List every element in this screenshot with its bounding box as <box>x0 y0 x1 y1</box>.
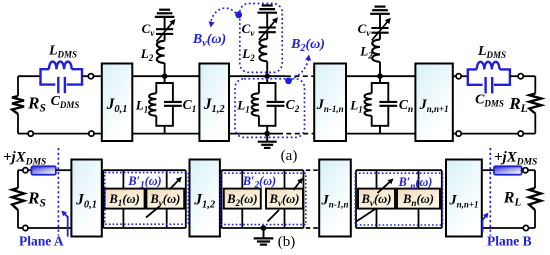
wire unit 1 element 2 <box>166 170 168 188</box>
capacitor C2 of resonator 2 <box>267 83 275 102</box>
wire resonator 2 top stub <box>266 76 268 83</box>
svg-text:(a): (a) <box>281 148 298 164</box>
wire resonator n top stub <box>379 76 381 83</box>
wire top bus J01-J12 <box>132 75 199 77</box>
svg-text:B1(ω): B1(ω) <box>108 192 139 208</box>
terminal circle (row b right) <box>523 168 528 173</box>
capacitor CDMS (right, blue) <box>484 77 486 93</box>
svg-text:Bv(ω): Bv(ω) <box>269 192 300 208</box>
susceptance box v unit 1 <box>146 189 184 209</box>
resistor RL (row b) <box>528 169 535 171</box>
node blue dot on Bv box <box>235 11 242 18</box>
arrow variable unit1 <box>170 179 180 189</box>
wire RS bottom rail <box>18 133 29 135</box>
wire top bus dashed continuation <box>286 75 314 77</box>
ground row b <box>263 228 265 238</box>
inductor L1 of resonator n <box>372 83 380 93</box>
ground (top) of branch 1 <box>155 16 175 18</box>
terminal circle load port top <box>456 74 461 79</box>
inverter box J01 (row b) <box>71 160 101 237</box>
capacitor Cn of resonator n <box>380 83 388 102</box>
capacitor CDMS (left, blue) <box>57 77 59 93</box>
svg-text:Bv(ω): Bv(ω) <box>361 192 392 208</box>
inductor L2 n <box>379 33 381 40</box>
dashed box Bv (varactor branch 2) <box>240 4 282 73</box>
susceptance box 2 unit 2 <box>224 189 261 209</box>
wire dashed bus row b top <box>306 169 319 171</box>
dashed unit box 1 <box>105 173 188 225</box>
dashed unit box n <box>355 173 442 225</box>
ground (top) of branch 2 <box>257 12 277 14</box>
inductor LDMS (right, blue) <box>468 69 510 84</box>
svg-text:B2(ω): B2(ω) <box>226 192 257 208</box>
inductor LDMS (left, blue) <box>41 69 83 84</box>
wire top bus unit 1 <box>103 169 186 171</box>
terminal circle right bottom <box>518 131 523 136</box>
resistor RS (row a) <box>17 76 19 96</box>
inductor L1 of resonator 2 <box>259 83 267 93</box>
wire unit n right port <box>441 170 443 228</box>
wire bottom left row b <box>18 227 71 229</box>
svg-text:Plane A: Plane A <box>19 234 64 249</box>
inverter box J12 (row a) <box>199 64 229 142</box>
node Plane B reference line <box>489 148 491 236</box>
svg-text:B2(ω): B2(ω) <box>290 37 325 54</box>
inductor L2 2 <box>266 32 268 39</box>
wire bottom bus Jn-1,n to Jn,n+1 <box>346 133 415 135</box>
wire to terminal <box>18 169 23 171</box>
wire unit 2 left port <box>221 170 223 228</box>
inductor L2 1 <box>164 34 166 41</box>
wire unit 2 element 2 <box>284 170 286 188</box>
node Plane A reference line <box>57 148 59 236</box>
wire resonator n bottom stub <box>379 126 381 134</box>
arrow variable Bv unit1 <box>146 206 160 218</box>
wire ground to Cv 1 <box>164 17 166 29</box>
svg-text:Bv(ω): Bv(ω) <box>149 192 180 208</box>
ground below resonator2 <box>266 134 268 142</box>
inductor L1 of resonator 1 <box>156 83 164 93</box>
node junction dot branch 2 <box>264 73 270 79</box>
capacitor C1 of resonator 1 <box>165 83 173 102</box>
wire bottom bus J12-resonator2 <box>229 133 278 135</box>
wire bottom bus J01-J12 <box>132 133 199 135</box>
wire bottom bus unit 2 <box>222 227 304 229</box>
terminal circle bottom-left <box>28 131 33 136</box>
arrow variable Bv unit n <box>356 209 377 223</box>
wire bottom bus unit n <box>356 227 442 229</box>
susceptance box n unit n <box>397 189 440 209</box>
node junction dot branch n <box>377 73 383 79</box>
wire bottom right <box>453 133 457 135</box>
terminal circle right top <box>518 74 523 79</box>
reactance XDMS box right <box>494 166 522 174</box>
wire ground to Cv n <box>379 14 381 28</box>
susceptance box 1 unit 1 <box>105 189 145 209</box>
resistor RL (row a) <box>523 75 535 77</box>
dashed box B2 (resonator 2) <box>235 79 305 138</box>
wire dashed bus row b bottom <box>306 227 319 229</box>
wire unit 2 element 1 <box>241 170 243 188</box>
capacitor Cv (varactor) 2 <box>259 26 276 28</box>
inverter box Jn-1,n (row a) <box>314 64 346 142</box>
wire top bus unit n <box>356 169 442 171</box>
inverter box Jn,n+1 (row b) <box>446 160 482 237</box>
ground (top) of branch n <box>370 13 390 15</box>
wire unit 1 left port <box>102 170 104 228</box>
arrow B2(w) callout <box>291 59 309 80</box>
wire bottom bus unit 1 <box>103 227 186 229</box>
wire RS top to LDMS block <box>18 75 41 77</box>
wire unit 2 right port <box>303 170 305 228</box>
terminal circle (row b left) <box>23 168 28 173</box>
node dot resonator2 bottom <box>264 131 270 137</box>
node blue dot on B2 box <box>285 77 292 84</box>
wire block to terminal <box>82 75 89 77</box>
terminal circle load port bottom <box>456 131 461 136</box>
wire resonator 1 bottom stub <box>164 126 166 134</box>
inverter box J01 (row a) <box>102 64 133 142</box>
node junction dot branch 1 <box>162 73 168 79</box>
svg-text:Plane B: Plane B <box>487 234 532 249</box>
wire L2 to bus 2 <box>266 61 268 76</box>
wire unit 1 right port <box>185 170 187 228</box>
resistor RS (row b) <box>17 170 19 188</box>
wire top bus unit 2 <box>222 169 304 171</box>
inverter box J12 (row b) <box>190 160 220 237</box>
inverter box Jn,n+1 (row a) <box>415 64 452 142</box>
capacitor Cv (varactor) 1 <box>156 28 173 30</box>
wire unit n left port <box>355 170 357 228</box>
reactance XDMS box left <box>31 166 55 174</box>
wire top bus J12-resonator2 <box>229 75 286 77</box>
wire resonator 2 bottom stub <box>266 126 268 134</box>
wire unit n element 2 <box>418 170 420 188</box>
arrow variable unit n <box>378 181 392 193</box>
wire bottom right row b <box>482 227 535 229</box>
wire L2 to bus n <box>379 62 381 76</box>
node dot ground row b <box>261 225 267 231</box>
terminal circle bottom right row b <box>523 225 528 230</box>
terminal circle bottom left row b <box>23 225 28 230</box>
wire L2 to bus 1 <box>164 63 166 76</box>
arrow variable unit2 <box>294 181 301 191</box>
wire bottom left rail <box>33 133 89 135</box>
arrow Bv(w) callout <box>210 8 236 23</box>
capacitor Cv (varactor) n <box>371 27 388 29</box>
terminal circle top (source port) <box>88 74 93 79</box>
inverter box Jn-1,n (row b) <box>319 160 351 237</box>
dashed unit box 2 <box>221 173 306 224</box>
wire bottom bus dashed continuation <box>278 133 314 135</box>
wire unit 1 element 1 <box>122 170 124 188</box>
svg-text:Bv(ω): Bv(ω) <box>192 32 226 49</box>
arrow Plane A <box>67 216 69 237</box>
svg-text:(b): (b) <box>278 234 296 250</box>
arrow variable Bv unit2 <box>268 210 280 222</box>
wire top bus Jn-1,n to Jn,n+1 <box>346 75 415 77</box>
terminal circle bottom (source port) <box>89 131 94 136</box>
wire resonator 1 top stub <box>164 76 166 83</box>
arrow Plane B <box>482 219 484 233</box>
wire ground to Cv 2 <box>266 13 268 28</box>
susceptance box v unit n <box>358 189 395 209</box>
wire unit n element 1 <box>376 170 378 188</box>
svg-text:Bn(ω): Bn(ω) <box>402 192 434 208</box>
susceptance box v unit 2 <box>266 189 303 209</box>
